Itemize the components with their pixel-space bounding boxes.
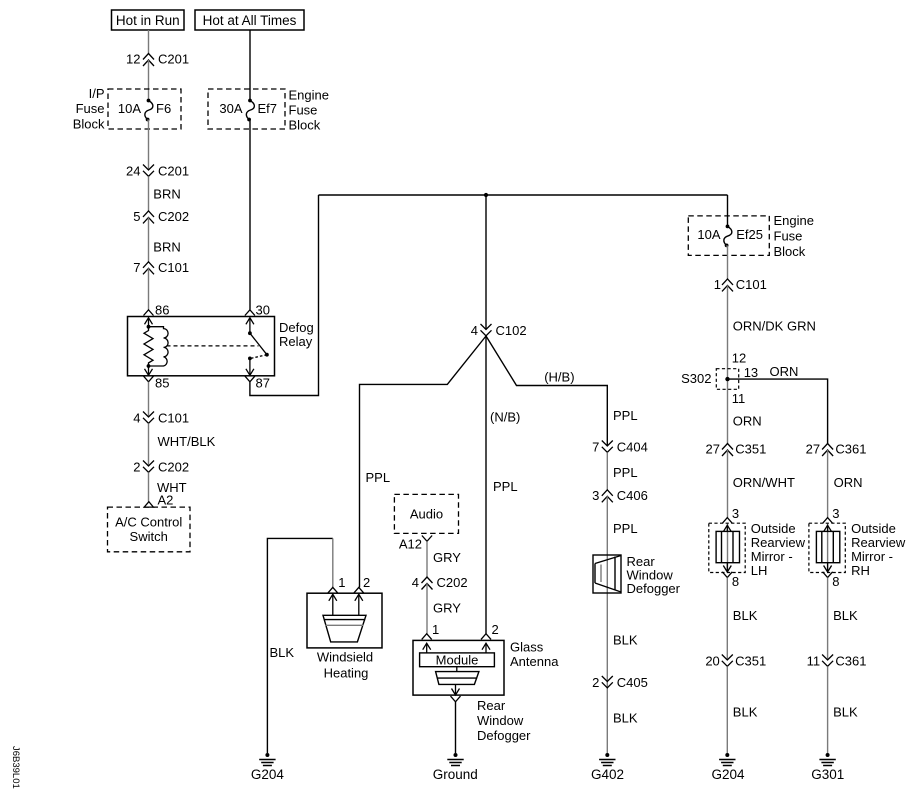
svg-text:BLK: BLK — [833, 705, 858, 720]
svg-text:85: 85 — [155, 376, 169, 391]
svg-text:3: 3 — [592, 488, 599, 503]
wire GRY to module pin 1 — [427, 584, 461, 634]
wire BLK RH mirror — [828, 578, 858, 661]
wire Ef25 to connector C101-1 — [726, 245, 729, 279]
svg-text:Outside: Outside — [851, 521, 896, 536]
wire BRN — [149, 217, 181, 261]
power source Hot in Run — [112, 10, 185, 30]
connector C201 pin 24 — [126, 164, 189, 179]
svg-text:C201: C201 — [158, 52, 189, 67]
svg-text:C101: C101 — [736, 277, 767, 292]
svg-text:8: 8 — [732, 574, 739, 589]
pin 2 of module — [481, 622, 499, 653]
wire to windshield heating pin 1 — [332, 538, 334, 587]
wire WHT — [149, 472, 187, 501]
wire ORN from S302 to RH mirror column — [728, 364, 828, 444]
relay coil resistor — [144, 327, 153, 366]
svg-text:(H/B): (H/B) — [544, 370, 574, 385]
svg-text:10A: 10A — [697, 227, 720, 242]
connector C406 pin 3 — [592, 488, 648, 503]
wire PPL — [607, 452, 637, 490]
rear window defogger grid element — [593, 555, 621, 593]
svg-text:11: 11 — [807, 654, 821, 669]
pin 11 label — [732, 391, 746, 406]
wire GRY — [427, 541, 461, 577]
svg-text:Block: Block — [774, 244, 806, 259]
connector C201 pin 12 — [126, 52, 189, 67]
power source Hot at All Times — [195, 10, 304, 30]
svg-text:BRN: BRN — [153, 187, 180, 202]
svg-text:8: 8 — [832, 574, 839, 589]
svg-text:Audio: Audio — [410, 506, 443, 521]
svg-text:C351: C351 — [735, 442, 766, 457]
svg-text:2: 2 — [592, 675, 599, 690]
label I/P Fuse Block — [73, 86, 105, 132]
svg-text:PPL: PPL — [366, 470, 391, 485]
wire BLK to ground G204 — [727, 666, 757, 753]
svg-text:BLK: BLK — [833, 608, 858, 623]
module defogger grid element — [436, 667, 479, 685]
RH mirror heater element — [816, 531, 839, 562]
svg-text:ORN: ORN — [733, 414, 762, 429]
svg-text:ORN/WHT: ORN/WHT — [733, 475, 795, 490]
wire Hot at All Times to fuse Ef7 — [249, 30, 251, 101]
relay switch common node (dot) — [248, 331, 252, 335]
pin 3 of RH mirror — [823, 506, 840, 532]
wire ORN/DK GRN to splice S302 — [728, 285, 816, 443]
svg-text:Defogger: Defogger — [627, 581, 681, 596]
svg-text:Hot in Run: Hot in Run — [116, 13, 180, 28]
svg-text:BLK: BLK — [733, 705, 758, 720]
I/P Fuse Block (dashed) — [108, 89, 181, 129]
svg-text:C101: C101 — [158, 411, 189, 426]
svg-text:5: 5 — [133, 209, 140, 224]
wire relay 87 up to feed bus — [250, 195, 319, 396]
svg-text:1: 1 — [338, 575, 345, 590]
svg-text:GRY: GRY — [433, 601, 461, 616]
svg-text:1: 1 — [714, 277, 721, 292]
wire module to ground — [455, 702, 457, 753]
svg-text:(N/B): (N/B) — [490, 409, 520, 424]
wire PPL to rear window defogger element — [607, 496, 637, 753]
svg-text:12: 12 — [126, 52, 140, 67]
Outside Rearview Mirror LH (dashed box) — [709, 523, 745, 572]
svg-text:27: 27 — [806, 442, 820, 457]
svg-text:4: 4 — [412, 575, 419, 590]
fuse Ef7 30A — [219, 99, 277, 122]
ground G204 (left) — [251, 753, 285, 782]
Audio unit (dashed box) — [394, 494, 458, 533]
pin 8 of RH mirror — [823, 572, 840, 589]
connector C202 pin 4 — [412, 575, 468, 590]
wire ORN below S302 — [733, 414, 762, 429]
ground (module) — [433, 753, 478, 782]
svg-text:RH: RH — [851, 563, 870, 578]
svg-text:Windsield: Windsield — [317, 650, 373, 665]
svg-text:J6B39L01: J6B39L01 — [10, 746, 21, 789]
label Engine Fuse Block — [774, 213, 814, 259]
windshield heating ground wire BLK — [267, 538, 332, 753]
wire bus to connector C102-4 — [485, 195, 487, 330]
connector C405 pin 2 — [592, 675, 648, 690]
svg-text:Mirror -: Mirror - — [851, 549, 893, 564]
wire F6 to connector C201-24 — [147, 120, 150, 171]
svg-text:30A: 30A — [219, 101, 242, 116]
svg-text:Block: Block — [289, 118, 321, 133]
svg-text:LH: LH — [751, 563, 768, 578]
fuse Ef25 10A — [697, 225, 763, 248]
svg-text:A/C Control: A/C Control — [115, 514, 182, 529]
svg-text:BLK: BLK — [613, 711, 638, 726]
svg-text:WHT/BLK: WHT/BLK — [158, 434, 216, 449]
pin 2 of Windsield Heating — [354, 575, 370, 615]
svg-text:86: 86 — [155, 303, 169, 318]
relay pin 87 lead (arrow down) — [246, 358, 254, 375]
svg-text:BLK: BLK — [733, 608, 758, 623]
svg-text:A12: A12 — [399, 537, 422, 552]
wire BLK LH mirror — [727, 578, 757, 661]
RH mirror ground lead (arrow down) — [824, 563, 832, 572]
pin 1 of module — [422, 622, 440, 653]
wire feed bus — [319, 194, 728, 196]
glass antenna module outer box — [413, 640, 504, 695]
connector C102 pin 4 — [471, 323, 527, 338]
pin 12 label — [732, 351, 746, 366]
svg-text:24: 24 — [126, 164, 140, 179]
pin 87 of Defog Relay — [245, 376, 270, 391]
svg-text:Antenna: Antenna — [510, 654, 559, 669]
svg-text:PPL: PPL — [613, 521, 638, 536]
svg-text:Fuse: Fuse — [289, 103, 318, 118]
svg-text:30: 30 — [256, 303, 270, 318]
wire ORN/WHT to LH mirror — [728, 450, 795, 573]
wire C101-7 to relay pin 86 — [148, 268, 150, 310]
svg-text:20: 20 — [705, 654, 719, 669]
svg-text:Engine: Engine — [289, 88, 329, 103]
svg-text:2: 2 — [492, 622, 499, 637]
pin 30 of Defog Relay — [245, 303, 270, 334]
label Outside Rearview Mirror - RH — [851, 521, 906, 578]
wire branch to windshield heating (PPL) — [360, 336, 487, 587]
module ground pin (arrow down) — [451, 684, 461, 701]
wire PPL — [613, 408, 638, 423]
wire BLK to ground — [613, 711, 638, 726]
svg-text:Window: Window — [477, 713, 524, 728]
svg-text:C404: C404 — [617, 440, 648, 455]
svg-text:F6: F6 — [156, 101, 171, 116]
svg-text:PPL: PPL — [493, 479, 518, 494]
connector C101 pin 1 — [714, 277, 767, 292]
svg-text:C102: C102 — [496, 323, 527, 338]
connector C404 pin 7 — [592, 440, 648, 455]
svg-text:C202: C202 — [158, 209, 189, 224]
svg-text:PPL: PPL — [613, 408, 638, 423]
svg-text:Ground: Ground — [433, 767, 478, 782]
fuse F6 10A — [118, 99, 171, 122]
svg-text:C201: C201 — [158, 164, 189, 179]
svg-text:Rearview: Rearview — [851, 535, 906, 550]
connector C361 pin 11 — [807, 654, 867, 669]
svg-text:C202: C202 — [158, 460, 189, 475]
svg-text:C101: C101 — [158, 260, 189, 275]
svg-text:11: 11 — [732, 391, 746, 406]
wire bus to Engine Fuse Block Ef25 — [727, 195, 729, 226]
svg-text:Ef25: Ef25 — [736, 227, 763, 242]
connector C361 pin 27 — [806, 442, 867, 457]
svg-text:Fuse: Fuse — [76, 101, 105, 116]
svg-text:A2: A2 — [158, 493, 174, 508]
relay: Defog Relay box U1 — [128, 317, 314, 376]
svg-text:2: 2 — [133, 460, 140, 475]
wire Hot in Run to connector C201-12 — [148, 30, 150, 54]
svg-text:C351: C351 — [735, 654, 766, 669]
svg-text:Ef7: Ef7 — [258, 101, 278, 116]
svg-text:BRN: BRN — [153, 240, 180, 255]
svg-text:Rear: Rear — [477, 698, 506, 713]
Outside Rearview Mirror RH (dashed box) — [809, 523, 845, 572]
svg-text:G204: G204 — [251, 767, 285, 782]
svg-text:S302: S302 — [681, 371, 711, 386]
svg-text:Hot at All Times: Hot at All Times — [203, 13, 297, 28]
svg-text:Heating: Heating — [324, 665, 369, 680]
svg-text:Fuse: Fuse — [774, 229, 803, 244]
svg-text:Defog: Defog — [279, 320, 314, 335]
LH mirror ground lead (arrow down) — [723, 563, 731, 572]
svg-text:ORN: ORN — [834, 475, 863, 490]
svg-text:C406: C406 — [617, 488, 648, 503]
svg-text:Engine: Engine — [774, 213, 814, 228]
windshield heater grid element — [323, 615, 366, 642]
connector C202 pin 2 — [133, 460, 189, 475]
svg-text:C361: C361 — [835, 442, 866, 457]
relay pin 87 node (dot) — [248, 357, 252, 361]
pin 8 of LH mirror — [722, 572, 739, 589]
svg-text:2: 2 — [363, 575, 370, 590]
junction node (dot) on bus — [484, 193, 488, 197]
Engine Fuse Block Ef25 (dashed) — [688, 216, 769, 256]
svg-text:C361: C361 — [835, 654, 866, 669]
wire C201-12 to fuse F6 — [148, 60, 150, 101]
svg-text:C202: C202 — [437, 575, 468, 590]
ground G204 (right) — [711, 753, 745, 782]
svg-text:3: 3 — [832, 506, 839, 521]
svg-text:I/P: I/P — [89, 86, 105, 101]
connector C202 pin 5 — [133, 209, 189, 224]
svg-text:ORN/DK GRN: ORN/DK GRN — [733, 318, 816, 333]
svg-text:13: 13 — [744, 365, 758, 380]
wire branch (H/B) to rear window defogger — [486, 336, 607, 446]
wire WHT/BLK — [149, 423, 216, 466]
wire Ef7 to relay pin 30 — [248, 120, 251, 310]
svg-text:ORN: ORN — [770, 364, 799, 379]
wire BLK — [613, 633, 638, 648]
pin 85 of Defog Relay — [144, 376, 170, 391]
svg-text:1: 1 — [432, 622, 439, 637]
svg-text:Switch: Switch — [130, 529, 168, 544]
wire branch (N/B) to glass antenna module — [486, 336, 520, 634]
svg-text:G402: G402 — [591, 767, 624, 782]
svg-text:GRY: GRY — [433, 550, 461, 565]
svg-text:12: 12 — [732, 351, 746, 366]
pin A12 of Audio — [399, 536, 432, 552]
connector C101 pin 7 — [133, 260, 189, 275]
splice S302 (dashed box) — [681, 369, 739, 390]
Module inner box — [420, 653, 495, 668]
relay coil inductor — [149, 327, 169, 366]
wire BRN — [149, 176, 181, 211]
A/C Control Switch (dashed box) — [108, 507, 191, 552]
pin 1 of Windsield Heating — [328, 575, 346, 615]
relay actuating dashed link — [167, 346, 267, 358]
svg-text:Module: Module — [436, 653, 479, 668]
wire BLK to ground G301 — [828, 666, 858, 753]
label Rear Window Defogger — [627, 554, 681, 596]
svg-text:Rearview: Rearview — [751, 535, 806, 550]
label Glass Antenna — [510, 640, 559, 670]
svg-text:Mirror -: Mirror - — [751, 549, 793, 564]
ground G301 — [811, 753, 844, 782]
pin 86 of Defog Relay — [144, 303, 170, 327]
svg-text:7: 7 — [133, 260, 140, 275]
connector C101 pin 4 — [133, 411, 189, 426]
svg-text:3: 3 — [732, 506, 739, 521]
Engine Fuse Block Ef7 (dashed) — [208, 89, 285, 129]
svg-text:Outside: Outside — [751, 521, 796, 536]
svg-text:87: 87 — [256, 376, 270, 391]
LH mirror heater element — [716, 531, 739, 562]
drawing number J6B39L01 (rotated) — [10, 746, 21, 789]
svg-text:G301: G301 — [811, 767, 844, 782]
connector C351 pin 20 — [705, 654, 766, 669]
svg-text:G204: G204 — [711, 767, 745, 782]
pin A2 of A/C Control Switch — [144, 493, 173, 508]
svg-text:C405: C405 — [617, 675, 648, 690]
svg-text:7: 7 — [592, 440, 599, 455]
svg-text:Defogger: Defogger — [477, 728, 531, 743]
connector C351 pin 27 — [706, 442, 767, 457]
wire relay 85 to connector C101-4 — [148, 382, 150, 417]
label Engine Fuse Block — [289, 88, 329, 133]
pin 3 of LH mirror — [722, 506, 739, 532]
Windsield Heating box — [307, 593, 382, 680]
relay pin 85 lead (arrow down) — [145, 366, 153, 375]
relay coil node (dot) — [147, 325, 151, 329]
svg-text:BLK: BLK — [613, 633, 638, 648]
label Rear Window Defogger (module) — [477, 698, 531, 743]
ground G402 — [591, 753, 624, 782]
svg-text:BLK: BLK — [270, 645, 295, 660]
svg-text:Block: Block — [73, 117, 105, 132]
wire ORN to RH mirror — [828, 450, 863, 573]
label Outside Rearview Mirror - LH — [751, 521, 806, 578]
svg-text:4: 4 — [133, 411, 140, 426]
svg-text:10A: 10A — [118, 101, 141, 116]
svg-text:Relay: Relay — [279, 334, 313, 349]
relay coil bottom node (dot) — [147, 364, 151, 368]
pin 13 label — [744, 365, 758, 380]
svg-text:PPL: PPL — [613, 465, 638, 480]
relay switch blade — [250, 333, 269, 356]
svg-text:Glass: Glass — [510, 640, 544, 655]
svg-text:27: 27 — [706, 442, 720, 457]
svg-text:4: 4 — [471, 323, 478, 338]
